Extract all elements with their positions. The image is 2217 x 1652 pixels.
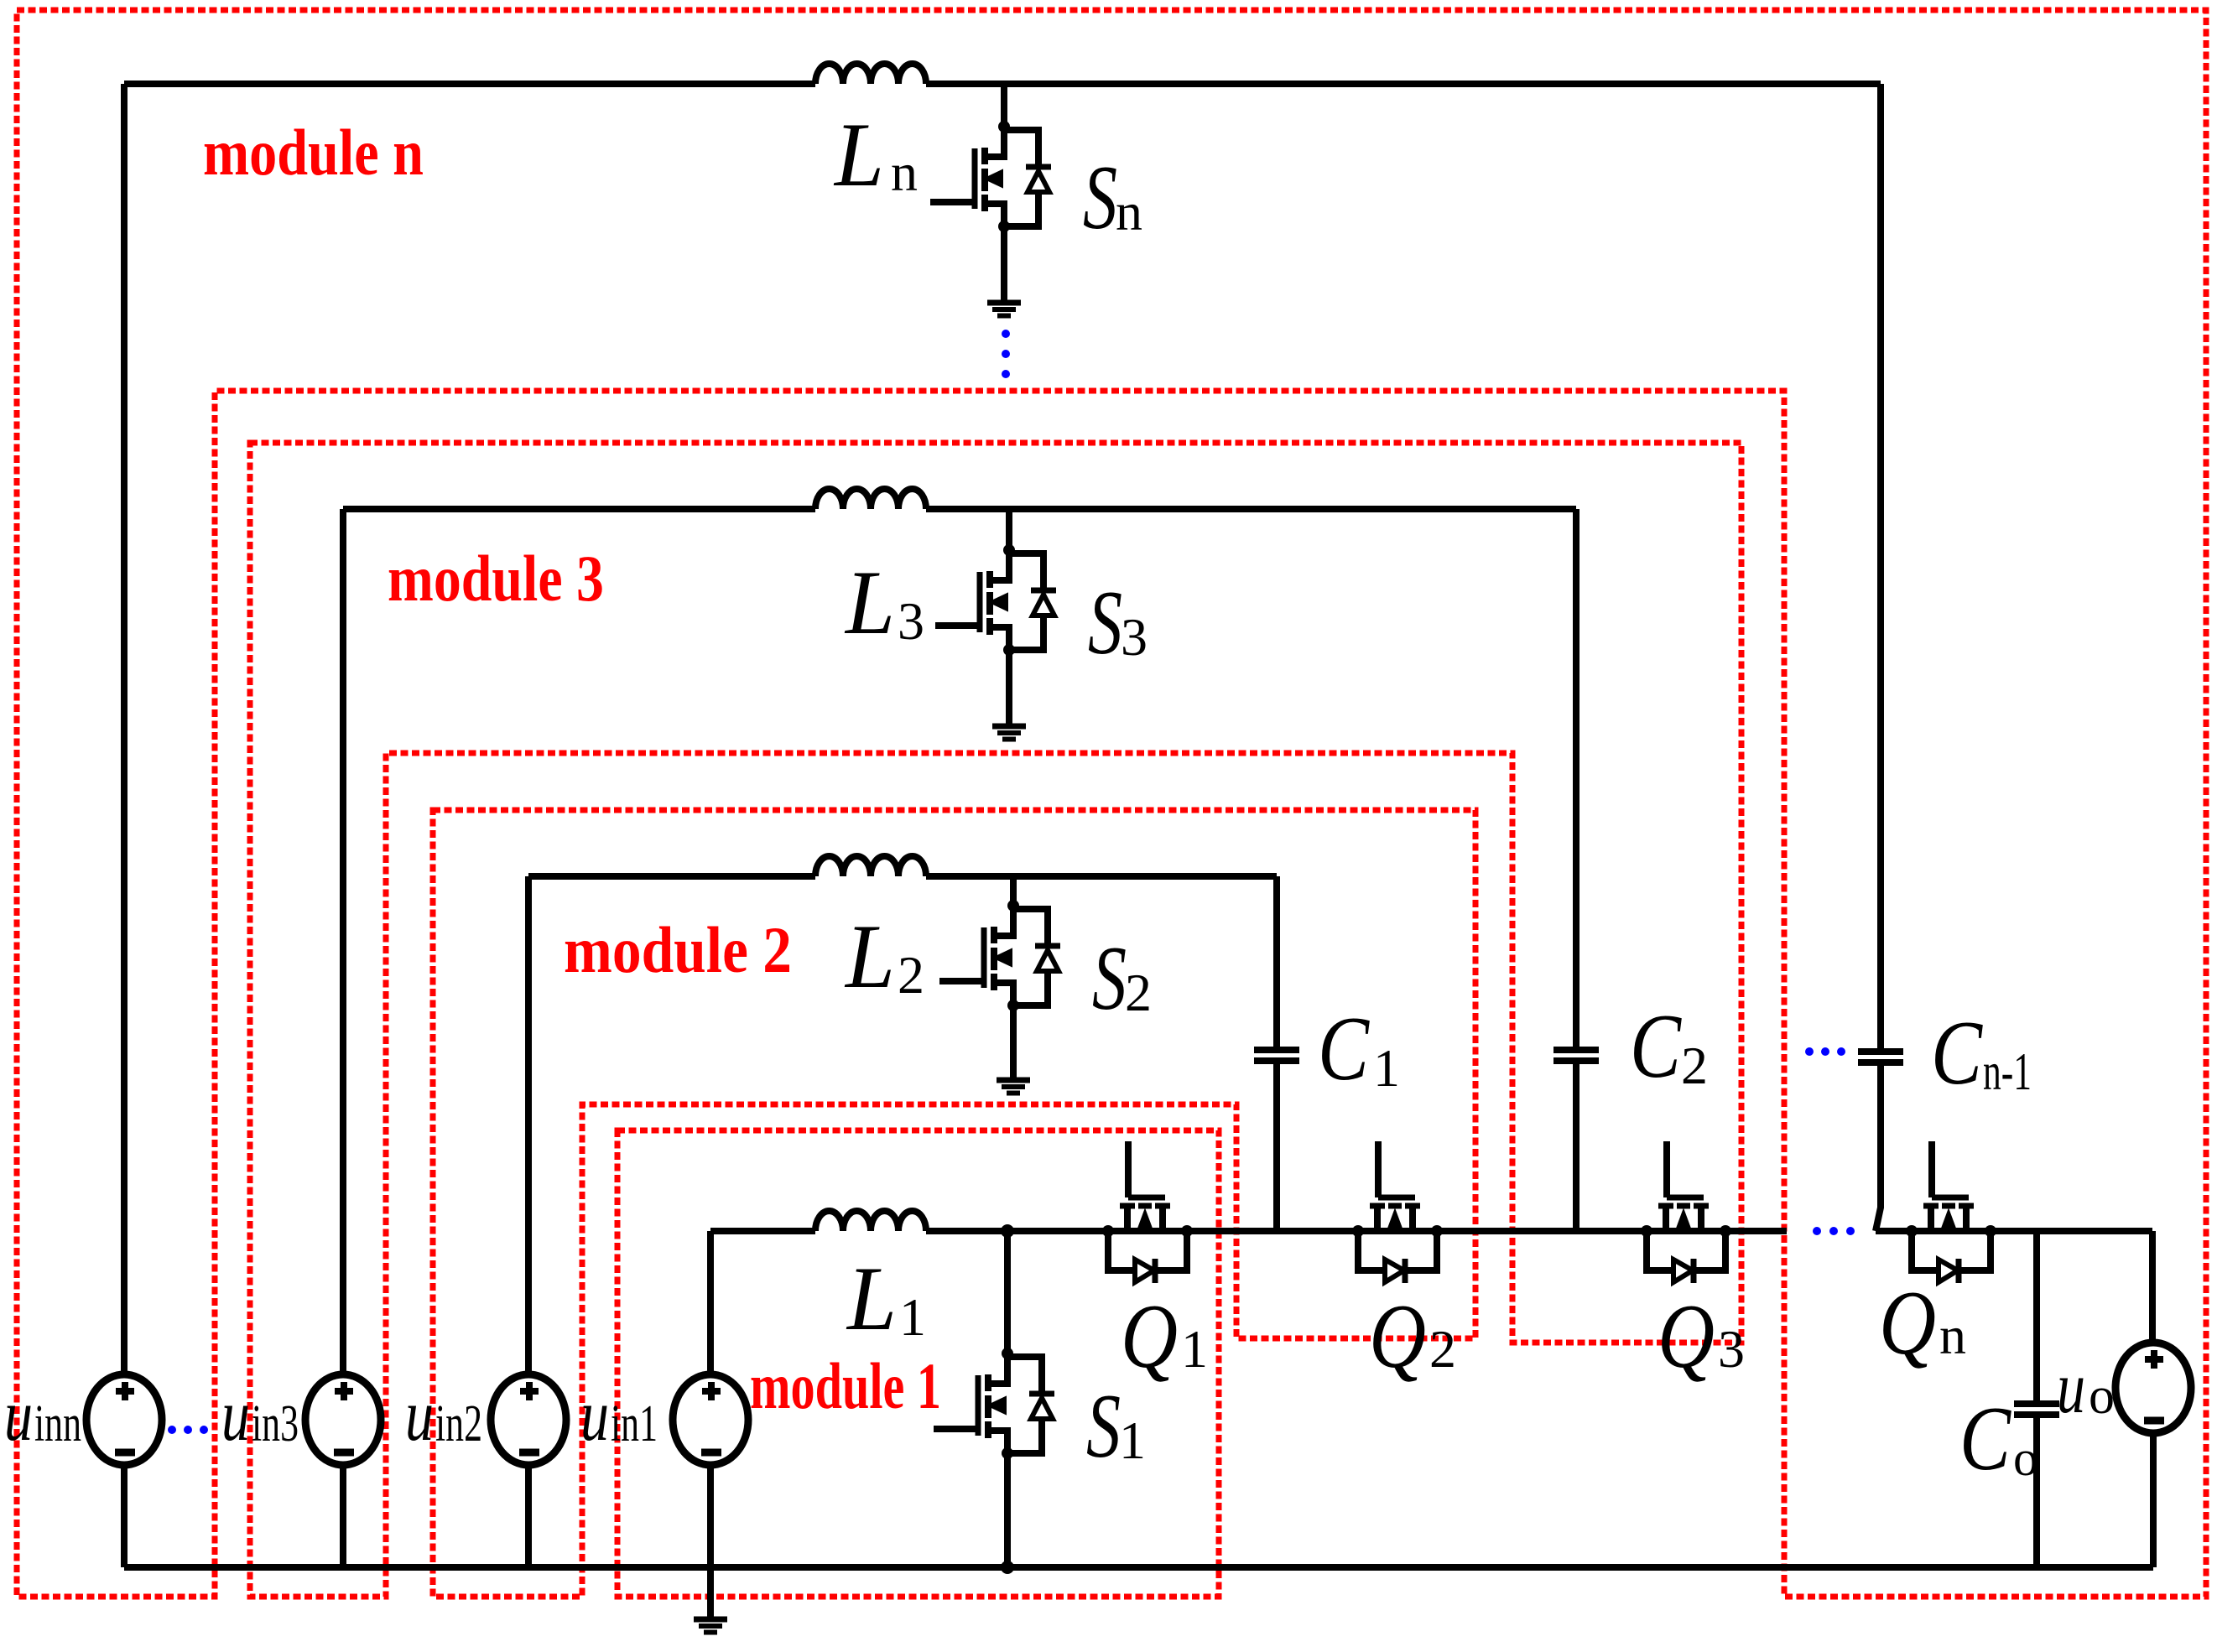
wire: bus right segment <box>1876 1228 2152 1234</box>
svg-text:1: 1 <box>1373 1038 1400 1098</box>
svg-text:module 2: module 2 <box>564 913 792 986</box>
inductor Ln <box>815 64 926 84</box>
module 2 dashed boundary <box>433 810 1475 1597</box>
voltage source u_inn <box>86 1374 162 1465</box>
svg-text:C: C <box>1318 998 1370 1099</box>
blue ellipsis in bus gap <box>1813 1227 1855 1235</box>
wire: u_in1 bottom lead through bus to ground <box>707 1463 714 1617</box>
module 1 dashed boundary <box>617 1130 1219 1597</box>
transistor Sn <box>930 121 1051 232</box>
capacitor Co <box>2014 1404 2059 1415</box>
wire: C2 bottom to bus <box>1573 1061 1579 1231</box>
wire: u_in3 bottom lead <box>340 1463 346 1567</box>
wire: module 2 right vertical down to C1 <box>1273 876 1280 1048</box>
wire: S1 drain stub <box>1004 1231 1011 1353</box>
wire: Sn source to ground <box>1001 226 1007 301</box>
wire: module 3 top bus right part <box>926 506 1576 512</box>
svg-text:3: 3 <box>1718 1319 1745 1379</box>
svg-text:S: S <box>1083 147 1117 248</box>
svg-text:u: u <box>405 1375 434 1457</box>
transistor Q2 <box>1352 1141 1443 1283</box>
wire: u_in2 bottom lead <box>525 1463 532 1567</box>
svg-text:u: u <box>4 1375 33 1457</box>
transistor S1 <box>934 1348 1054 1459</box>
svg-text:L: L <box>833 104 884 205</box>
svg-text:Q: Q <box>1121 1286 1178 1387</box>
svg-text:in3: in3 <box>252 1395 299 1452</box>
svg-text:u: u <box>2057 1348 2085 1429</box>
svg-text:2: 2 <box>898 945 924 1005</box>
wire: Co top lead <box>2033 1231 2040 1404</box>
svg-text:3: 3 <box>1121 607 1148 667</box>
svg-text:C: C <box>1630 995 1682 1097</box>
wire: S2 drain stub <box>1010 876 1017 906</box>
transistor S3 <box>935 544 1056 656</box>
svg-text:n: n <box>1939 1306 1966 1365</box>
wire: bottom bus <box>124 1564 2153 1571</box>
voltage source u_in2 <box>491 1374 566 1465</box>
capacitor Cn-1 <box>1858 1052 1903 1062</box>
wire: S3 drain stub <box>1006 509 1012 550</box>
ground below S2 <box>997 1080 1030 1094</box>
ground below Sn <box>987 303 1021 316</box>
svg-text:C: C <box>1959 1388 2011 1489</box>
wire: module 2 top bus left part <box>528 873 815 880</box>
wire: u_o bottom lead <box>2150 1432 2157 1567</box>
wire: module n top bus left part <box>124 81 815 87</box>
wire: output right drop to u_o <box>2149 1231 2156 1343</box>
wire: module n right vertical down to Cn-1 <box>1877 84 1884 1048</box>
voltage source u_o <box>2116 1343 2191 1433</box>
ground below module 1 <box>694 1619 727 1633</box>
svg-text:u: u <box>580 1375 609 1457</box>
wire: C1 bottom to bus <box>1273 1061 1280 1231</box>
transistor Q3 <box>1641 1141 1731 1283</box>
svg-text:1: 1 <box>1119 1410 1146 1470</box>
voltage source u_in3 <box>305 1374 381 1465</box>
svg-text:S: S <box>1086 1375 1121 1477</box>
svg-text:n: n <box>1116 182 1142 242</box>
capacitor C1 <box>1254 1050 1299 1061</box>
inductor L3 <box>815 489 926 509</box>
wire: module 2 left vertical <box>525 876 532 1376</box>
module 3 dashed boundary <box>250 443 1741 1597</box>
voltage source u_in1 <box>673 1374 748 1465</box>
ground below S3 <box>992 726 1026 740</box>
svg-text:S: S <box>1092 927 1127 1029</box>
blue ellipsis between u_inn and u_in3 <box>168 1426 208 1434</box>
wire: module n left vertical <box>121 84 128 1376</box>
svg-text:2: 2 <box>1125 963 1152 1022</box>
wire: main bus left part <box>710 1228 815 1234</box>
svg-text:n-1: n-1 <box>1983 1042 2032 1101</box>
inductor L2 <box>815 856 926 876</box>
wire: module 1 left vertical from bus to u_in1 <box>707 1231 714 1376</box>
svg-text:S: S <box>1088 572 1122 673</box>
svg-text:in1: in1 <box>611 1395 658 1452</box>
svg-text:2: 2 <box>1681 1036 1708 1095</box>
svg-text:o: o <box>2013 1431 2038 1486</box>
svg-text:o: o <box>2089 1368 2115 1425</box>
wire: Cn-1 bottom to bus <box>1876 1062 1881 1231</box>
capacitor C2 <box>1553 1050 1599 1061</box>
svg-text:in2: in2 <box>435 1395 482 1452</box>
wire: main bus through Q1 Q2 Q3 <box>926 1228 1787 1234</box>
wire: S3 source to ground <box>1006 650 1012 724</box>
blue vertical ellipsis below Sn ground <box>1002 330 1010 378</box>
node: S1 drain junction <box>1001 1224 1014 1238</box>
svg-text:n: n <box>891 143 918 202</box>
wire: u_inn bottom lead <box>121 1463 128 1567</box>
wire: S2 source to ground <box>1010 1005 1017 1078</box>
inductor L1 <box>815 1211 926 1231</box>
svg-text:inn: inn <box>34 1395 81 1452</box>
svg-text:L: L <box>844 552 895 653</box>
transistor Q1 <box>1102 1141 1193 1283</box>
transistor S2 <box>939 900 1060 1011</box>
svg-text:Q: Q <box>1879 1272 1936 1374</box>
wire: Sn drain stub <box>1001 84 1007 127</box>
wire: module 3 left vertical <box>340 509 346 1376</box>
wire: Co bottom lead <box>2033 1415 2040 1567</box>
svg-text:u: u <box>221 1375 250 1457</box>
wire: module 3 top bus left part <box>343 506 815 512</box>
blue ellipsis left of Cn-1 <box>1805 1047 1845 1056</box>
wire: module n top bus right part <box>926 81 1881 87</box>
svg-text:1: 1 <box>1181 1319 1208 1379</box>
svg-text:3: 3 <box>898 591 924 651</box>
transistor Qn <box>1906 1141 1996 1283</box>
svg-text:C: C <box>1931 1002 1983 1104</box>
node: S1 source junction on bottom bus <box>1001 1561 1014 1574</box>
svg-text:1: 1 <box>899 1287 926 1347</box>
svg-text:2: 2 <box>1429 1319 1456 1379</box>
svg-text:Q: Q <box>1369 1286 1426 1387</box>
svg-text:Q: Q <box>1658 1286 1715 1387</box>
wire: module 2 top bus right part <box>926 873 1277 880</box>
svg-text:L: L <box>844 906 895 1007</box>
svg-text:module n: module n <box>203 116 424 189</box>
wire: module 3 right vertical down to C2 <box>1573 509 1579 1048</box>
svg-text:module 1: module 1 <box>750 1349 941 1422</box>
svg-text:L: L <box>846 1248 897 1349</box>
wire: S1 source to bottom bus <box>1004 1453 1011 1567</box>
svg-text:module 3: module 3 <box>388 542 604 615</box>
